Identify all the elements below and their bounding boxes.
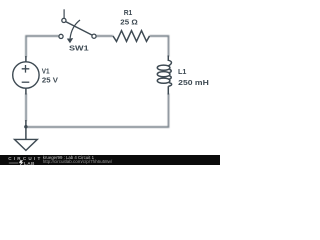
inductor L1 loop 1 bbox=[157, 65, 170, 70]
svg-text:LAB: LAB bbox=[24, 161, 35, 165]
svg-text:250 mH: 250 mH bbox=[178, 78, 209, 87]
V1 bottom lead bbox=[25, 88, 27, 94]
watermark caption line 1 bbox=[43, 155, 94, 160]
inductor L1 coil entry bbox=[168, 60, 171, 66]
V1 plus sign bbox=[22, 65, 30, 73]
watermark caption line 2 bbox=[43, 159, 112, 164]
L1 bottom lead bbox=[167, 86, 169, 94]
ground bbox=[15, 139, 38, 150]
svg-text:SW1: SW1 bbox=[69, 44, 89, 53]
V1 minus sign bbox=[22, 81, 30, 83]
V1 top lead bbox=[25, 56, 27, 62]
svg-text:25 Ω: 25 Ω bbox=[120, 18, 137, 27]
inductor L1 loop 3 bbox=[157, 78, 170, 83]
svg-text:25 V: 25 V bbox=[42, 78, 58, 85]
resistor R1 bbox=[113, 31, 150, 42]
CircuitLab logo word CIRCUIT bbox=[8, 156, 42, 161]
svg-text:R1: R1 bbox=[124, 10, 133, 17]
junction node bbox=[24, 125, 28, 129]
wire ground stem bbox=[25, 120, 27, 139]
inductor L1 loop 2 bbox=[157, 72, 170, 77]
wire L1 bottom lead to corner and bottom run to junction bbox=[27, 94, 169, 128]
wire switch to resistor bbox=[96, 35, 113, 37]
L1 top lead bbox=[167, 56, 169, 62]
switch arrow head bbox=[67, 38, 73, 43]
switch SW1 left terminal bbox=[59, 34, 63, 38]
wire resistor to top-right corner down to L1 top lead bbox=[150, 36, 169, 57]
inductor L1 connector 2 bbox=[169, 76, 171, 79]
wire top-left run: switch to corner to V1 top lead bbox=[26, 36, 59, 57]
voltage source V1 bbox=[13, 62, 39, 88]
switch SW1 top terminal bbox=[62, 18, 66, 22]
svg-text:L1: L1 bbox=[178, 69, 187, 76]
CircuitLab logo lightning and word LAB bbox=[8, 160, 42, 166]
switch SW1 lever bbox=[66, 22, 92, 35]
watermark bar bbox=[0, 155, 220, 165]
switch SW1 top stub bbox=[63, 9, 65, 18]
switch SW1 actuation arrow bbox=[70, 20, 80, 38]
svg-text:V1: V1 bbox=[42, 68, 50, 75]
wire left rail below V1 bbox=[25, 94, 27, 122]
inductor L1 connector 1 bbox=[169, 69, 171, 72]
switch SW1 right terminal bbox=[92, 34, 96, 38]
inductor L1 coil exit bbox=[168, 83, 171, 87]
